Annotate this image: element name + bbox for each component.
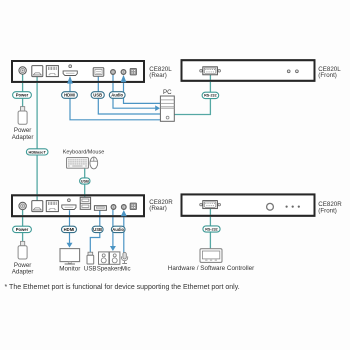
svg-text:Adapter: Adapter [12, 134, 34, 141]
svg-text:* The Ethernet port is functio: * The Ethernet port is functional for de… [5, 284, 240, 291]
svg-text:HDBaseT: HDBaseT [29, 149, 47, 154]
svg-text:Monitor: Monitor [59, 266, 80, 273]
svg-text:(Rear): (Rear) [149, 205, 167, 212]
svg-text:USB: USB [84, 266, 97, 273]
svg-text:(Front): (Front) [318, 208, 337, 215]
svg-text:Audio: Audio [112, 227, 124, 232]
svg-text:HDMI: HDMI [64, 227, 75, 232]
svg-text:Adapter: Adapter [12, 269, 34, 276]
svg-text:USB: USB [81, 178, 89, 183]
svg-text:USB: USB [93, 227, 102, 232]
svg-text:Power: Power [16, 227, 29, 232]
svg-text:RS-232: RS-232 [204, 94, 217, 98]
svg-text:Audio: Audio [111, 93, 123, 98]
svg-text:Power: Power [16, 93, 29, 98]
svg-text:Mic: Mic [121, 266, 130, 273]
svg-text:RS-232: RS-232 [205, 227, 218, 231]
svg-text:Hardware / Software Controller: Hardware / Software Controller [168, 265, 254, 272]
svg-text:PC: PC [163, 89, 172, 96]
svg-text:(Rear): (Rear) [149, 72, 167, 79]
svg-text:HDMI: HDMI [64, 93, 75, 98]
svg-text:Keyboard/Mouse: Keyboard/Mouse [63, 149, 105, 155]
svg-text:USB: USB [93, 93, 102, 98]
svg-text:Speakers: Speakers [97, 266, 123, 273]
svg-text:(Front): (Front) [318, 72, 337, 79]
